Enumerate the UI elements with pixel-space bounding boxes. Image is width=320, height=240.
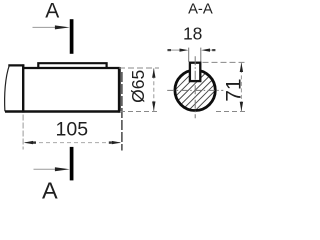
svg-text:A: A <box>45 0 59 23</box>
svg-text:18: 18 <box>183 24 202 44</box>
svg-text:A: A <box>42 177 58 200</box>
svg-text:71: 71 <box>222 78 245 101</box>
svg-text:A-A: A-A <box>188 2 213 18</box>
svg-text:Ø65: Ø65 <box>128 70 148 103</box>
svg-text:105: 105 <box>56 119 89 141</box>
